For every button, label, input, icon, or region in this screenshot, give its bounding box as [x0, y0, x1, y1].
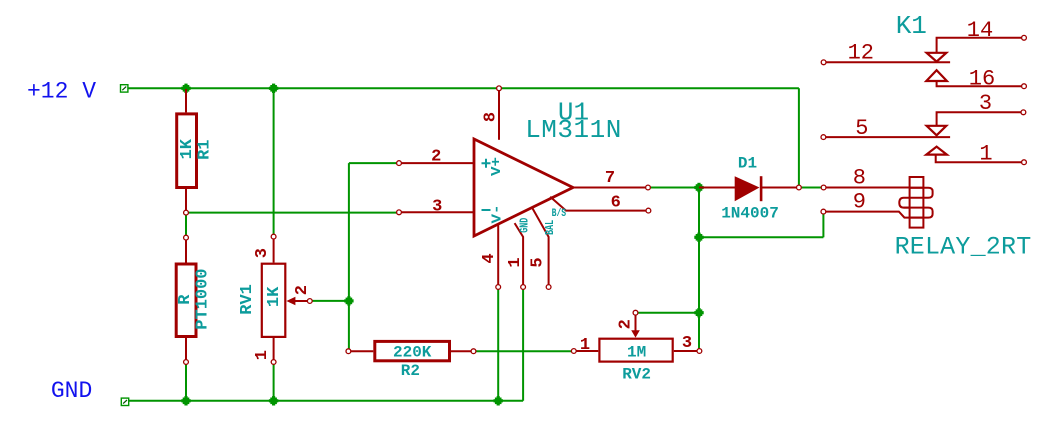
svg-text:RV1: RV1 — [238, 284, 257, 315]
wire node to relay pin9 — [699, 236, 823, 238]
svg-text:1: 1 — [253, 350, 272, 360]
svg-text:B/S: B/S — [552, 208, 567, 220]
svg-text:9: 9 — [853, 190, 866, 215]
pin 8 V+ — [498, 90, 500, 140]
contact triangle down 2 — [927, 126, 947, 136]
svg-text:GND: GND — [518, 218, 532, 233]
wire GND rail — [129, 400, 523, 402]
junction GND R — [183, 398, 190, 405]
wire RV1 pin1 to GND rail — [273, 362, 275, 401]
svg-text:14: 14 — [967, 18, 993, 43]
svg-text:3: 3 — [432, 197, 442, 216]
svg-text:7: 7 — [605, 169, 615, 188]
svg-text:2: 2 — [293, 285, 312, 295]
wire U1 pin4 to GND rail — [497, 287, 499, 401]
wire output node down to RV2 pin3 — [698, 188, 700, 352]
svg-text:GND: GND — [51, 378, 92, 404]
potentiometer RV2 — [571, 310, 701, 383]
junction GND RV1 — [270, 398, 277, 405]
svg-text:3: 3 — [979, 91, 992, 116]
svg-text:3: 3 — [253, 248, 272, 258]
junction +12V RV1 — [270, 85, 277, 92]
junction +12V R1 — [183, 85, 190, 92]
pin 14 — [937, 38, 1022, 53]
svg-text:1: 1 — [979, 142, 992, 167]
svg-text:1K: 1K — [178, 138, 197, 159]
pin 12 — [826, 61, 950, 63]
svg-text:R1: R1 — [195, 139, 214, 159]
pin 3 — [937, 112, 1021, 126]
pin 1 GND — [515, 223, 524, 285]
svg-text:RELAY_2RT: RELAY_2RT — [895, 233, 1032, 262]
svg-text:BAL: BAL — [543, 220, 557, 235]
pin 6 — [550, 197, 648, 211]
pin 5 — [826, 136, 950, 138]
svg-text:3: 3 — [682, 334, 692, 353]
pin 16 — [937, 81, 1022, 86]
contact triangle up 1 — [926, 70, 947, 81]
svg-text:V+: V+ — [489, 157, 505, 176]
svg-text:V-: V- — [490, 205, 506, 224]
wire +12V to RV1 pin3 — [273, 88, 275, 236]
svg-text:1: 1 — [506, 257, 525, 267]
junction output D1 anode — [696, 184, 703, 191]
diode D1 1N4007 — [699, 155, 801, 223]
svg-text:4: 4 — [480, 253, 499, 263]
pin 2 — [399, 162, 473, 164]
svg-text:2: 2 — [617, 319, 636, 329]
svg-text:D1: D1 — [738, 155, 757, 173]
wire R1 bottom to R top — [185, 213, 187, 238]
pin 8 coil — [826, 187, 910, 189]
wire U1 pin1 to GND rail — [522, 287, 524, 401]
contact triangle up 2 — [926, 147, 947, 155]
pin 4 V- — [497, 224, 499, 285]
svg-text:16: 16 — [969, 67, 995, 92]
svg-text:1K: 1K — [265, 286, 284, 307]
svg-text:R: R — [176, 294, 195, 305]
relay K1 RELAY_2RT — [821, 11, 1031, 262]
wire R2 to RV2 pin1 — [474, 350, 574, 352]
GND wire-end terminal square — [121, 398, 128, 405]
pin 1 — [936, 155, 1022, 163]
svg-text:PT1000: PT1000 — [193, 268, 212, 329]
wire vertical pin2 node to R2 — [348, 163, 350, 351]
svg-text:8: 8 — [482, 112, 501, 122]
pin 5 BAL — [532, 207, 549, 285]
svg-text:5: 5 — [855, 116, 868, 141]
junction relay pin9 node — [696, 234, 703, 241]
wire RV1 wiper to pin2 node — [310, 300, 349, 302]
pin 9 coil — [826, 212, 910, 218]
svg-text:R2: R2 — [401, 362, 420, 380]
wire D1 cathode to relay pin8 — [799, 187, 824, 189]
plus input marker — [482, 159, 491, 168]
wire R1 bottom to U1 pin3 — [186, 212, 399, 214]
wire to U1 pin2 — [349, 162, 399, 164]
contact triangle down 1 — [927, 53, 947, 62]
svg-text:RV2: RV2 — [622, 366, 651, 384]
minus input marker — [482, 209, 491, 211]
svg-text:6: 6 — [611, 194, 621, 213]
svg-text:1N4007: 1N4007 — [721, 204, 779, 222]
wire +12V drop to relay coil node — [798, 88, 800, 187]
svg-text:LM311N: LM311N — [525, 115, 622, 145]
pin 7 output — [571, 187, 648, 189]
svg-text:1M: 1M — [627, 344, 646, 362]
+12V wire-end terminal square — [121, 85, 128, 92]
coil symbol — [899, 177, 932, 228]
potentiometer RV1 — [238, 234, 312, 364]
pin 3 — [399, 211, 473, 213]
wire RV2 wiper to node — [636, 312, 700, 314]
junction RV2 wiper node — [696, 309, 703, 316]
resistor R2 — [346, 341, 476, 380]
wire +12V rail — [128, 87, 799, 89]
resistor R1 — [177, 89, 215, 215]
svg-text:K1: K1 — [896, 11, 927, 41]
junction GND U1 pin4 — [495, 398, 502, 405]
svg-text:5: 5 — [529, 257, 548, 267]
svg-text:8: 8 — [853, 166, 866, 191]
svg-text:2: 2 — [431, 148, 441, 167]
wire R bottom to GND rail — [185, 362, 187, 401]
svg-text:12: 12 — [848, 41, 874, 66]
thermistor R PT1000 — [176, 235, 212, 364]
wire relay pin9 drop — [822, 212, 824, 238]
op-amp U1 LM311N — [397, 86, 651, 290]
svg-text:220K: 220K — [393, 344, 432, 362]
svg-text:1: 1 — [580, 336, 590, 355]
wire U1 pin7 output to node — [648, 187, 699, 189]
junction wiper node — [346, 298, 353, 305]
svg-text:+12 V: +12 V — [27, 79, 96, 105]
